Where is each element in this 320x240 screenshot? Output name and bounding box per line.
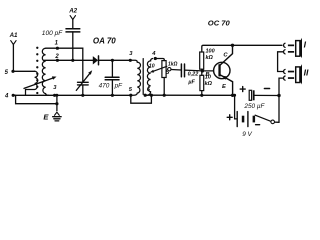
capacitor C3 470pF xyxy=(105,60,119,95)
svg-text:A1: A1 xyxy=(9,32,18,39)
svg-text:10: 10 xyxy=(149,64,155,70)
capacitor C1 100pF xyxy=(66,29,80,32)
svg-text:9 V: 9 V xyxy=(242,131,252,138)
junction D1-C3 xyxy=(111,59,114,62)
svg-text:E: E xyxy=(222,84,227,90)
junction battery-rail xyxy=(233,94,236,97)
earphone II flare xyxy=(300,64,302,84)
wire node4 to earth xyxy=(16,95,57,103)
earphone I pins xyxy=(288,45,294,53)
wire earphone I to II xyxy=(278,52,284,72)
wire node5 to coupling winding xyxy=(13,70,35,72)
svg-text:4: 4 xyxy=(151,51,156,57)
svg-text:I: I xyxy=(304,39,307,49)
wire base to transistor xyxy=(202,70,213,72)
svg-text:100: 100 xyxy=(206,48,215,54)
earphone II body xyxy=(296,67,300,83)
junction emitter rail xyxy=(231,94,234,97)
svg-text:E: E xyxy=(43,113,49,122)
svg-text:10: 10 xyxy=(205,75,211,81)
transformer T1 primary xyxy=(130,60,140,95)
transformer T1 secondary xyxy=(145,59,152,96)
svg-text:OC 70: OC 70 xyxy=(208,18,231,27)
wire R2 top to collector rail xyxy=(202,45,233,52)
svg-text:5: 5 xyxy=(129,87,133,93)
potentiometer R1 xyxy=(162,61,166,78)
coil L1 main winding xyxy=(42,48,48,95)
capacitor C5 250uF plus sign xyxy=(240,87,245,92)
wire C5 right to corner xyxy=(255,94,279,96)
wire node T1-4 to potentiometer xyxy=(155,59,164,61)
earphone I body xyxy=(296,41,300,57)
junction C1-rail xyxy=(71,59,74,62)
coil L1 tuning arrow xyxy=(24,78,53,88)
node T1-5 xyxy=(129,94,132,97)
svg-text:1: 1 xyxy=(55,41,59,47)
earphone I flare xyxy=(300,38,302,58)
wire switch to corner xyxy=(275,121,280,123)
wire corner down to switch xyxy=(278,96,280,123)
earphone II pins xyxy=(288,71,294,79)
transformer T1 core xyxy=(142,59,144,95)
resistor R3 10k xyxy=(200,75,204,90)
junction R1-rail xyxy=(163,94,166,97)
wire A1 down xyxy=(12,45,14,72)
resistor R2 100k xyxy=(200,52,204,69)
junction C2-rail xyxy=(81,94,84,97)
svg-text:pF: pF xyxy=(114,82,124,89)
node T1-6 xyxy=(144,94,147,97)
svg-text:II: II xyxy=(304,68,309,78)
svg-text:3: 3 xyxy=(129,51,133,57)
node 4 xyxy=(12,94,15,97)
svg-text:4: 4 xyxy=(4,93,9,99)
ground xyxy=(53,112,61,121)
wire bottom rail right xyxy=(145,94,232,96)
junction R3-rail xyxy=(200,94,203,97)
switch S1 lever xyxy=(255,115,270,121)
coil L1 coupling winding xyxy=(26,71,38,95)
earphone II connector lower contact xyxy=(284,76,286,80)
svg-text:OA 70: OA 70 xyxy=(93,36,116,45)
earphone I connector upper contact xyxy=(284,43,286,47)
battery B1 9V xyxy=(237,112,255,127)
junction collector rail xyxy=(231,44,234,47)
svg-text:0,22: 0,22 xyxy=(188,72,199,78)
junction earth xyxy=(55,102,58,105)
wire R3 top xyxy=(201,71,203,75)
potentiometer R1 wiper terminal xyxy=(168,68,171,71)
wire R1 bottom to rail xyxy=(163,78,165,96)
svg-text:kΩ: kΩ xyxy=(206,55,214,61)
wire battery positive lead xyxy=(235,95,238,119)
wire wiper to C4 xyxy=(171,70,202,71)
svg-text:250 µF: 250 µF xyxy=(243,103,265,110)
junction rail-earth xyxy=(55,94,58,97)
capacitor C4 0.22uF xyxy=(181,64,184,77)
battery minus sign xyxy=(256,124,260,126)
svg-text:470: 470 xyxy=(99,82,110,89)
svg-text:1kΩ: 1kΩ xyxy=(168,61,178,67)
coil L1 core dots xyxy=(36,47,38,95)
wire top rail tap2 to diode xyxy=(45,59,94,61)
potentiometer R1 wiper arrow to winding xyxy=(154,66,167,71)
wire earth stem xyxy=(56,95,58,110)
junction corner earphone-switch xyxy=(277,94,280,97)
node T1-3 xyxy=(129,59,132,62)
antenna A1 xyxy=(11,41,16,45)
capacitor C2 variable xyxy=(76,70,92,95)
wire earphone II lower to corner xyxy=(279,78,283,95)
capacitor C5 250uF xyxy=(249,90,254,100)
node T1-4 xyxy=(154,57,157,60)
svg-text:A2: A2 xyxy=(68,8,77,15)
earphone I connector lower contact xyxy=(284,50,286,54)
svg-text:µF: µF xyxy=(187,79,195,85)
node tap2 xyxy=(56,59,59,62)
transistor Q1 xyxy=(214,45,233,95)
capacitor C5 minus sign xyxy=(264,88,269,90)
wire C1 to rail xyxy=(72,32,74,60)
wire R2 bottom to base xyxy=(201,69,204,71)
battery plus sign xyxy=(227,115,232,120)
antenna A2 xyxy=(70,16,75,20)
wire T1 bottom U link xyxy=(131,95,152,103)
switch S1 contact xyxy=(271,120,275,124)
svg-text:kΩ: kΩ xyxy=(205,81,213,87)
earphone II connector upper contact xyxy=(284,69,286,73)
diode D1 xyxy=(93,56,131,65)
node tap1 xyxy=(56,47,59,50)
svg-text:3: 3 xyxy=(53,85,57,91)
wire A2 to capacitor xyxy=(72,20,74,29)
junction C3-rail xyxy=(111,94,114,97)
node 5 xyxy=(11,70,14,73)
svg-text:5: 5 xyxy=(5,70,9,76)
wire tap1 xyxy=(46,48,83,82)
wire bottom rail left xyxy=(13,94,131,96)
wire collector rail to earphone I xyxy=(233,44,283,46)
node tap3 xyxy=(53,94,56,97)
wire R3 bottom xyxy=(201,91,203,96)
node base B xyxy=(201,69,204,72)
svg-text:100 pF: 100 pF xyxy=(42,30,64,37)
junction U-rail xyxy=(150,94,153,97)
